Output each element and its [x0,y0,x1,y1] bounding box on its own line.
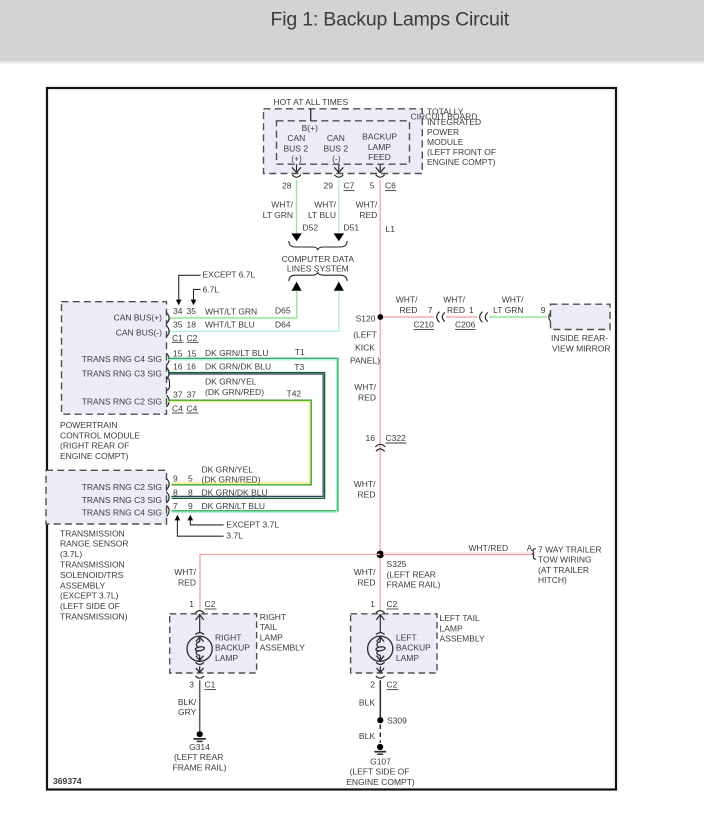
svg-text:CONTROL MODULE: CONTROL MODULE [60,430,140,440]
svg-text:COMPUTER DATA: COMPUTER DATA [282,254,355,264]
svg-text:RED: RED [358,490,376,500]
arrow into data lines (D51) [334,233,345,241]
svg-text:BLK: BLK [359,698,375,708]
svg-text:TRANSMISSION: TRANSMISSION [60,528,125,538]
svg-text:5: 5 [370,181,375,191]
svg-text:EXCEPT 3.7L: EXCEPT 3.7L [226,519,279,529]
svg-text:G107: G107 [370,756,391,766]
wire WHT/RED C210 to C206 [446,316,477,318]
svg-text:DK GRN/YEL: DK GRN/YEL [205,377,257,387]
svg-text:B(+): B(+) [302,123,318,133]
svg-text:35: 35 [173,319,183,329]
TIPM outer dashed box (circuit board enclosure) [264,109,423,174]
arrow out of data lines to D64 [334,282,344,291]
svg-text:369374: 369374 [53,776,82,786]
svg-text:BUS 2: BUS 2 [324,143,349,153]
wire T3 DK BLU inner [168,374,323,496]
svg-text:TRANS RNG C4 SIG: TRANS RNG C4 SIG [82,354,162,364]
svg-text:BUS 2: BUS 2 [284,143,309,153]
connector cup at right lamp entry [195,611,204,613]
svg-text:CAN: CAN [327,133,345,143]
wire T1 LT BLU inner [168,360,336,513]
svg-text:C210: C210 [414,319,435,329]
svg-text:C2: C2 [387,680,398,690]
svg-text:WHT/: WHT/ [271,200,293,210]
svg-text:(LEFT REAR: (LEFT REAR [174,752,223,762]
svg-text:16: 16 [187,362,197,372]
svg-text:S120: S120 [356,313,376,323]
svg-text:DK GRN/LT BLU: DK GRN/LT BLU [205,348,268,358]
arrow into data lines (D52) [291,233,302,241]
svg-text:16: 16 [366,433,376,443]
svg-text:S309: S309 [387,716,407,726]
svg-text:15: 15 [187,348,197,358]
callout EXCEPT 6.7L [176,270,256,306]
callout arrow 3.7L [175,515,224,536]
ground G314 [194,731,206,741]
svg-text:C2: C2 [205,599,216,609]
inside rear-view mirror dashed box [551,304,611,329]
connector symbol C206 [480,312,483,323]
svg-text:RED: RED [358,393,376,403]
svg-text:FRAME RAIL): FRAME RAIL) [387,580,441,590]
svg-text:INTEGRATED: INTEGRATED [427,117,481,127]
svg-text:C2: C2 [387,599,398,609]
svg-text:37: 37 [173,390,183,400]
connector cup at left lamp entry [376,611,385,613]
svg-text:2: 2 [370,680,375,690]
svg-text:TRANS RNG C4 SIG: TRANS RNG C4 SIG [82,508,162,518]
svg-text:LAMP: LAMP [440,623,463,633]
svg-text:WHT/: WHT/ [396,294,418,304]
svg-text:(RIGHT REAR OF: (RIGHT REAR OF [60,441,129,451]
svg-text:C6: C6 [385,181,396,191]
svg-text:16: 16 [173,362,183,372]
svg-text:SOLENOID/TRS: SOLENOID/TRS [60,570,124,580]
svg-text:(LEFT SIDE OF: (LEFT SIDE OF [60,601,120,611]
svg-text:C1: C1 [172,333,183,343]
svg-text:(LEFT REAR: (LEFT REAR [387,569,436,579]
pin bracket TRANS RNG C2 SIG [167,395,170,407]
ground G107 [374,744,386,754]
svg-text:WHT/: WHT/ [314,200,336,210]
svg-text:ENGINE COMPT): ENGINE COMPT) [60,451,129,461]
svg-text:T1: T1 [295,347,305,357]
svg-text:TRANS RNG C2 SIG: TRANS RNG C2 SIG [82,482,162,492]
pin bracket trs row1 [167,479,170,490]
svg-text:(AT TRAILER: (AT TRAILER [538,565,589,575]
svg-text:WHT/: WHT/ [354,567,376,577]
pin 5 stem and arrow at TIPM [376,164,385,177]
svg-text:7: 7 [428,305,433,315]
wire T42 DK GRN/YEL outer [168,400,311,485]
svg-text:EXCEPT 6.7L: EXCEPT 6.7L [203,270,256,280]
svg-text:CAN: CAN [287,133,305,143]
svg-text:(3.7L): (3.7L) [60,549,82,559]
pin bracket trs row3 [167,505,170,516]
svg-text:RED: RED [359,210,377,220]
svg-text:RED: RED [358,577,376,587]
node S309 dot [377,717,383,723]
svg-text:FEED: FEED [368,152,391,162]
right lamp feed stem with up arrow [195,614,204,635]
svg-text:POWER: POWER [427,127,459,137]
svg-text:VIEW MIRROR: VIEW MIRROR [552,344,611,354]
wire WHT/RED S325 branch left [200,554,380,609]
svg-text:CAN BUS(+): CAN BUS(+) [114,312,163,322]
left lamp feed stem with up arrow [376,614,385,635]
pin 29 stem and arrow at TIPM [334,164,343,177]
wire T42 YEL inner [168,402,310,483]
node S120 junction dot [377,314,383,320]
wire D65 WHT/LT GRN to PCM pin 34 [168,291,297,318]
svg-text:(LEFT: (LEFT [353,329,377,339]
svg-text:PANEL): PANEL) [350,356,380,366]
svg-text:ENGINE COMPT): ENGINE COMPT) [427,157,496,167]
svg-text:WHT/: WHT/ [354,382,376,392]
svg-text:POWERTRAIN: POWERTRAIN [60,420,117,430]
wire T3 DK GRN/DK BLU outer [168,373,325,499]
left tail lamp assembly dashed box [351,614,437,673]
connector cup below left lamp [376,676,385,678]
callout arrow EXCEPT 3.7L [188,515,224,525]
svg-text:37: 37 [187,390,197,400]
pin bracket trs row2 [167,492,170,503]
svg-text:DK GRN/YEL: DK GRN/YEL [202,464,254,474]
svg-text:D65: D65 [275,305,291,315]
svg-text:WHT/RED: WHT/RED [469,543,509,553]
svg-text:ASSEMBLY: ASSEMBLY [60,580,106,590]
svg-text:(EXCEPT 3.7L): (EXCEPT 3.7L) [60,591,119,601]
svg-text:RANGE SENSOR: RANGE SENSOR [60,539,129,549]
svg-text:35: 35 [187,306,197,316]
svg-text:HOT AT ALL TIMES: HOT AT ALL TIMES [274,97,349,107]
svg-text:LEFT TAIL: LEFT TAIL [440,613,480,623]
pin bracket TRANS RNG C4 SIG [167,353,170,365]
svg-text:HITCH): HITCH) [538,575,567,585]
svg-text:8: 8 [188,487,193,497]
svg-text:9: 9 [541,305,546,315]
pin 28 stem and arrow at TIPM [292,164,301,177]
svg-text:LT GRN: LT GRN [263,210,293,220]
node S325 junction dot [377,551,385,559]
svg-text:BACKUP: BACKUP [362,132,397,142]
wire B(+) feed into circuit board [310,109,312,121]
svg-text:WHT/LT BLU: WHT/LT BLU [205,320,255,330]
wire WHT/LT GRN to mirror [489,316,547,318]
pin bracket TRANS RNG C3 SIG [167,367,170,379]
svg-text:D64: D64 [275,319,291,329]
wire BLK to S309 [379,680,381,717]
svg-text:BLK: BLK [359,731,375,741]
svg-text:LAMP: LAMP [260,632,283,642]
svg-text:29: 29 [324,181,334,191]
svg-text:5: 5 [188,474,193,484]
svg-text:WHT/: WHT/ [354,479,376,489]
connector cup below right lamp [195,676,204,678]
svg-text:ENGINE COMPT): ENGINE COMPT) [346,777,415,787]
svg-text:3.7L: 3.7L [226,531,243,541]
wire T1 DK GRN/LT BLU outer [168,358,338,511]
svg-text:T3: T3 [294,362,304,372]
svg-text:TRANS RNG C3 SIG: TRANS RNG C3 SIG [82,495,162,505]
svg-text:KICK: KICK [355,342,375,352]
svg-text:LAMP: LAMP [368,142,391,152]
svg-text:DK GRN/DK BLU: DK GRN/DK BLU [205,362,271,372]
svg-text:ASSEMBLY: ASSEMBLY [440,634,486,644]
pin bracket CAN BUS(-) [167,326,170,337]
svg-text:A: A [527,544,533,553]
svg-text:C1: C1 [205,680,216,690]
connector symbol C322 inline [375,444,385,447]
svg-text:28: 28 [282,181,292,191]
left backup lamp bulb [368,636,393,672]
svg-text:3: 3 [189,680,194,690]
svg-text:RED: RED [447,305,465,315]
svg-text:RIGHT: RIGHT [215,632,241,642]
svg-text:BACKUP: BACKUP [396,643,431,653]
wire D51 WHT/LT BLU from pin 29 [338,180,340,233]
svg-text:C4: C4 [172,404,183,414]
svg-text:G314: G314 [189,742,210,752]
svg-text:15: 15 [173,348,183,358]
svg-text:MODULE: MODULE [427,137,464,147]
wire D64 WHT/LT BLU to PCM pin 35 [168,291,339,332]
svg-text:TRANS RNG C3 SIG: TRANS RNG C3 SIG [82,369,162,379]
svg-text:CAN BUS(-): CAN BUS(-) [116,327,162,337]
svg-text:D51: D51 [344,222,360,232]
svg-text:L1: L1 [386,224,396,234]
diagram border frame [47,88,616,790]
title bar [0,0,704,61]
svg-text:34: 34 [173,306,183,316]
svg-text:(-): (-) [332,154,341,164]
svg-text:ASSEMBLY: ASSEMBLY [260,643,306,653]
svg-text:(DK GRN/RED): (DK GRN/RED) [205,387,264,397]
svg-text:D52: D52 [303,222,319,232]
right backup lamp bulb [187,636,212,672]
svg-text:S325: S325 [387,559,407,569]
TRS dashed box transmission range sensor [46,470,167,524]
svg-text:RED: RED [400,305,418,315]
wire BLK/GRY to ground [199,680,201,731]
wire WHT/RED S325 to trailer tow [383,552,533,554]
connector symbol at mirror [549,312,552,323]
svg-text:Fig 1: Backup Lamps Circuit: Fig 1: Backup Lamps Circuit [271,9,510,31]
wire D52 WHT/LT GRN from pin 28 [296,180,298,233]
svg-text:(LEFT SIDE OF: (LEFT SIDE OF [350,767,410,777]
svg-text:DK GRN/DK BLU: DK GRN/DK BLU [202,487,268,497]
callout 6.7L [191,285,220,306]
svg-text:INSIDE REAR-: INSIDE REAR- [551,333,608,343]
trailer tow off-page connector symbol [532,548,536,559]
svg-text:LT GRN: LT GRN [493,305,523,315]
svg-text:C206: C206 [455,319,476,329]
svg-text:8: 8 [173,487,178,497]
pin bracket CAN BUS(+) [167,313,170,324]
TIPM inner dashed box U1 circuit board [277,121,410,164]
arrow out of data lines to D65 [292,282,302,291]
svg-text:7 WAY TRAILER: 7 WAY TRAILER [538,544,601,554]
svg-text:WHT/: WHT/ [174,567,196,577]
svg-text:TRANSMISSION: TRANSMISSION [60,560,125,570]
svg-text:1: 1 [370,599,375,609]
svg-text:GRY: GRY [178,707,197,717]
svg-text:C7: C7 [344,181,355,191]
svg-text:RED: RED [178,577,196,587]
svg-text:C322: C322 [386,433,407,443]
right tail lamp assembly dashed box [170,614,257,673]
wire L1 WHT/RED from pin 5 down to S325 [379,180,381,610]
svg-text:LEFT: LEFT [396,632,417,642]
svg-text:(DK GRN/RED): (DK GRN/RED) [202,474,261,484]
svg-text:(+): (+) [291,154,302,164]
svg-text:TOW WIRING: TOW WIRING [538,555,592,565]
PCM dashed box powertrain control module [62,302,167,415]
svg-text:BACKUP: BACKUP [215,643,250,653]
svg-text:WHT/: WHT/ [356,200,378,210]
svg-text:LT BLU: LT BLU [308,210,336,220]
svg-text:T42: T42 [287,388,302,398]
svg-text:FRAME RAIL): FRAME RAIL) [173,763,227,773]
svg-text:C2: C2 [187,333,198,343]
svg-text:(LEFT FRONT OF: (LEFT FRONT OF [427,147,496,157]
svg-text:LAMP: LAMP [215,653,238,663]
svg-text:1: 1 [469,305,474,315]
svg-text:7: 7 [173,501,178,511]
svg-text:6.7L: 6.7L [203,285,220,295]
svg-text:1: 1 [189,599,194,609]
svg-text:WHT/LT GRN: WHT/LT GRN [205,306,257,316]
pin link bracket between pin 16 and pin 37 [167,378,170,391]
svg-text:LAMP: LAMP [396,653,419,663]
wire BLK dashed S309 to ground [379,725,381,743]
svg-text:TAIL: TAIL [260,622,278,632]
svg-text:TRANS RNG C2 SIG: TRANS RNG C2 SIG [82,396,162,406]
svg-text:9: 9 [173,474,178,484]
brace upper computer data lines [289,241,347,250]
svg-text:9: 9 [188,501,193,511]
svg-text:WHT/: WHT/ [443,294,465,304]
svg-text:C4: C4 [187,404,198,414]
svg-text:DK GRN/LT BLU: DK GRN/LT BLU [202,501,265,511]
brace lower computer data lines [289,273,347,282]
svg-text:WHT/: WHT/ [502,294,524,304]
connector symbol C210 [437,312,440,323]
svg-text:RIGHT: RIGHT [260,612,286,622]
svg-text:18: 18 [187,319,197,329]
svg-text:BLK/: BLK/ [178,697,197,707]
svg-text:TRANSMISSION): TRANSMISSION) [60,612,128,622]
wire WHT/RED S120 to C210 [383,316,434,318]
